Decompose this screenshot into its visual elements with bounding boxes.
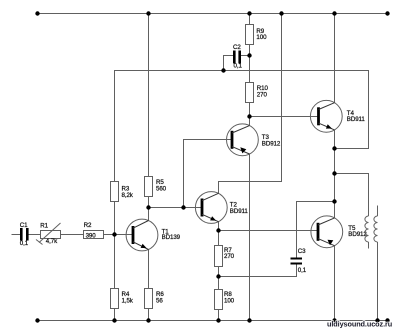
wire bootstrap net R3 top to T4 emitter (115, 71, 369, 182)
wire node to R8 (218, 277, 220, 290)
transistor T1 BD139 (126, 219, 181, 251)
resistor R7 270 (215, 246, 235, 267)
svg-text:1,5k: 1,5k (122, 297, 134, 304)
wire T1 emitter to R6 (148, 249, 150, 289)
wire T3 base drop (184, 140, 233, 208)
svg-text:BD911: BD911 (347, 116, 366, 123)
transistor T2 BD911 (195, 192, 248, 224)
svg-text:0,1: 0,1 (234, 62, 243, 69)
wire T5 collector entry (334, 202, 336, 219)
wire C3 bottom to R7 R8 node (219, 265, 297, 277)
wire output node chain (334, 149, 336, 202)
transistor T4 BD911 (310, 100, 365, 132)
svg-text:uldiysound.ucoz.ru: uldiysound.ucoz.ru (327, 319, 392, 328)
svg-text:56: 56 (156, 297, 163, 304)
wire T2 collector riser to rail (219, 14, 282, 194)
wire node to R7 (218, 231, 220, 246)
svg-text:390: 390 (86, 232, 97, 239)
svg-text:0,1: 0,1 (298, 267, 307, 274)
svg-text:R1: R1 (40, 222, 48, 229)
wire R3 to R4 (114, 202, 116, 289)
resistor R4 1,5k (111, 289, 134, 309)
resistor R8 100 (215, 290, 235, 310)
wire C2 left lead (224, 56, 234, 71)
svg-text:R2: R2 (84, 222, 92, 229)
resistor R6 56 (145, 289, 165, 309)
wire top supply rail (38, 13, 388, 15)
resistor R5 560 (145, 177, 167, 197)
wire T4 collector from rail (334, 14, 336, 104)
wire transformer primary top lead (335, 174, 369, 217)
svg-text:100: 100 (256, 34, 267, 41)
wire R6 to ground rail (148, 309, 150, 321)
transformer primary winding (365, 216, 369, 242)
wire transformer primary bottom stub (368, 242, 370, 249)
wire R9 to R10 (249, 45, 251, 83)
wire R10 to T3 collector node (249, 103, 251, 126)
svg-text:BD912: BD912 (262, 141, 281, 148)
wire R1 to R2 (61, 234, 84, 236)
resistor R1 trimmer 4,7k (36, 222, 61, 245)
wire node to T4 base (250, 116, 319, 118)
svg-text:BD139: BD139 (162, 234, 181, 241)
resistor R3 8,2k (111, 182, 134, 202)
svg-text:100: 100 (224, 298, 235, 305)
wire T2 emitter to node (218, 222, 220, 231)
svg-text:4,7k: 4,7k (46, 238, 58, 245)
wire T1 collector (148, 208, 150, 222)
wire T3 emitter to ground rail (249, 154, 251, 321)
svg-text:C1: C1 (20, 222, 28, 229)
svg-text:0,1: 0,1 (20, 240, 29, 247)
svg-text:560: 560 (156, 186, 167, 193)
resistor R2 390 (84, 222, 104, 239)
svg-text:270: 270 (257, 91, 268, 98)
wire C1 to R1 (29, 234, 41, 236)
capacitor C1 (20, 222, 29, 247)
transistor T5 BD912 (311, 216, 367, 248)
capacitor C3 (291, 248, 307, 274)
wire R5 to T1 collector node (148, 197, 150, 208)
svg-text:8,2k: 8,2k (122, 192, 134, 199)
resistor R10 270 (246, 83, 269, 103)
resistor R9 100 (246, 25, 268, 45)
wire T4 emitter to output node (334, 130, 336, 149)
transformer secondary winding (374, 216, 378, 242)
wire node to T2 base (149, 207, 203, 209)
svg-text:270: 270 (224, 253, 235, 260)
wire bottom ground rail (38, 320, 388, 322)
transistor T3 BD912 (227, 124, 281, 156)
watermark uldiysound.ucoz.ru (327, 319, 392, 328)
svg-text:C2: C2 (233, 44, 241, 51)
wire C3 top lead (297, 202, 335, 258)
wire R9 feed from rail (249, 14, 251, 25)
wire C2 right lead (241, 55, 250, 57)
wire R7 to node (218, 267, 220, 277)
svg-text:C3: C3 (298, 248, 306, 255)
capacitor C2 (233, 44, 242, 69)
wire R5 feed from rail (148, 14, 150, 177)
wire input stub (12, 234, 21, 236)
svg-text:BD911: BD911 (230, 208, 249, 215)
wire T5 base (219, 230, 319, 232)
wire transformer secondary top stub (377, 206, 379, 217)
wire R4 to ground rail (114, 309, 116, 321)
wire transformer secondary to ground rail (377, 242, 379, 321)
wire R8 to ground rail (218, 310, 220, 321)
wire T5 emitter to ground rail (334, 246, 336, 321)
wire R2 to T1 base (104, 234, 134, 236)
